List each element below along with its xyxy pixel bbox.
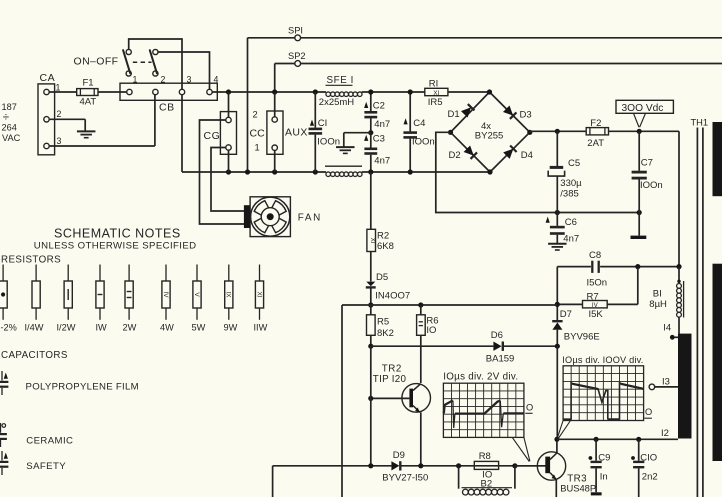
- diode D5: [366, 272, 410, 305]
- transformer primary bar: [678, 334, 692, 439]
- svg-text:8µH: 8µH: [649, 299, 667, 310]
- svg-text:In: In: [600, 471, 608, 482]
- pin 1 of CB: [127, 75, 138, 95]
- svg-text:264: 264: [2, 123, 17, 133]
- junction CB out / CG: [226, 89, 231, 94]
- svg-text:8K2: 8K2: [377, 328, 394, 339]
- wire CG bottom to AC bus: [228, 150, 230, 172]
- node bridge top corner: [487, 89, 492, 94]
- legend ceramic capacitor symbol: [0, 423, 7, 447]
- svg-text:D1: D1: [448, 109, 460, 120]
- svg-text:D7: D7: [560, 309, 572, 320]
- wire CA pin1 to F1: [49, 91, 76, 93]
- pin 3 of CB: [179, 75, 191, 95]
- svg-text:AUX: AUX: [285, 127, 308, 139]
- svg-text:XI: XI: [433, 90, 439, 97]
- wire TR3 emitter down: [555, 479, 557, 497]
- svg-text:O: O: [645, 407, 652, 417]
- oscillogram box 2: [563, 366, 644, 421]
- legend resistor 4W: [160, 265, 174, 333]
- svg-text:4n7: 4n7: [374, 156, 390, 167]
- wire bottom-left return: [273, 466, 342, 497]
- diode D1: [448, 104, 475, 120]
- diode D4: [503, 145, 533, 160]
- oscillogram 2 zero marker: [644, 407, 652, 418]
- oscillogram 2 waveform: [564, 383, 644, 420]
- legend subtitle: [34, 241, 197, 252]
- svg-text:CB: CB: [159, 102, 175, 114]
- legend SAFETY: [26, 461, 66, 472]
- svg-text:IOOn: IOOn: [640, 180, 663, 191]
- chassis terminal bar (C9): [591, 492, 602, 495]
- svg-text:I5K: I5K: [589, 309, 604, 320]
- diode D6: [486, 330, 558, 364]
- inductor SFE1 winding A: [326, 92, 362, 97]
- pin 4 of CB: [207, 75, 219, 95]
- svg-text:C4: C4: [413, 118, 425, 129]
- junction CC bottom: [272, 169, 277, 174]
- junction 300V rail / B1 top: [676, 264, 681, 269]
- pin 1 of CC: [272, 145, 277, 150]
- wire pin 12 row: [557, 428, 678, 439]
- junction C4 top: [408, 89, 413, 94]
- wire 300Vdc rail down right side: [678, 131, 680, 266]
- wire TR2 base: [371, 397, 410, 399]
- svg-text:O: O: [526, 402, 533, 412]
- svg-text:BUS48P: BUS48P: [560, 483, 596, 494]
- junction CG bottom: [226, 169, 231, 174]
- svg-text:F2: F2: [590, 118, 601, 129]
- svg-text:XI: XI: [255, 291, 262, 297]
- ground (C6): [548, 244, 567, 250]
- svg-text:2n2: 2n2: [642, 471, 658, 482]
- svg-text:I/4W: I/4W: [25, 323, 44, 333]
- svg-text:1: 1: [133, 75, 138, 85]
- mains voltage label 187-264 VAC: [2, 102, 21, 143]
- legend resistor IW: [96, 265, 108, 333]
- wire D9 row: [342, 465, 546, 467]
- svg-text:BA159: BA159: [486, 354, 515, 365]
- wire C7 node to chassis terminal: [638, 213, 640, 236]
- svg-text:D5: D5: [376, 272, 388, 283]
- resistor R7: [557, 267, 638, 320]
- transistor TR2: [373, 363, 431, 412]
- oscillogram 1 waveform: [444, 401, 524, 428]
- svg-text:SFE I: SFE I: [327, 75, 355, 86]
- diode D2: [449, 145, 478, 160]
- fuse F1: [77, 78, 98, 108]
- svg-text:D3: D3: [520, 110, 532, 121]
- pin 2 of CC: [272, 117, 277, 122]
- capacitor C5: [548, 131, 582, 212]
- wire CG top pin to fan (lower): [200, 120, 245, 224]
- inductor SFE1 label: [326, 75, 355, 86]
- legend CAPACITORS heading: [1, 350, 68, 361]
- svg-text:CA: CA: [40, 72, 56, 84]
- svg-text:IN4OO7: IN4OO7: [375, 290, 410, 301]
- wire CA pin2 to ground: [49, 119, 85, 131]
- fan motor M1: [244, 197, 291, 237]
- wire CB pin3 down to bottom AC bus: [181, 95, 183, 172]
- junction TR2 base node: [368, 396, 373, 401]
- svg-text:1: 1: [255, 143, 260, 153]
- capacitor C9: [589, 439, 611, 492]
- transistor TR3: [537, 452, 596, 494]
- svg-text:F1: F1: [83, 78, 94, 89]
- svg-text:9W: 9W: [224, 323, 238, 333]
- svg-text:IO: IO: [426, 325, 436, 336]
- svg-text:C9: C9: [598, 453, 610, 464]
- svg-text:IV: IV: [162, 291, 169, 298]
- legend POLYPROPYLENE FILM: [26, 381, 139, 392]
- junction R5 bottom / D6: [368, 344, 373, 349]
- wire CG bottom pin to fan (upper): [211, 148, 244, 212]
- legend resistor 5W: [192, 265, 206, 333]
- wire S1 top to CB pin3: [129, 39, 182, 89]
- svg-text:IOµs div. IOOV div.: IOµs div. IOOV div.: [562, 355, 643, 365]
- svg-text:I4: I4: [663, 323, 671, 334]
- connector CG: [204, 112, 237, 155]
- wire S2 top to CB pin4: [158, 52, 210, 89]
- svg-text:RESISTORS: RESISTORS: [1, 255, 61, 266]
- junction SP1 bottom: [245, 169, 250, 174]
- svg-text:4n7: 4n7: [374, 119, 390, 130]
- capacitor C7: [632, 131, 663, 212]
- svg-text:C7: C7: [641, 158, 653, 169]
- connector CC: [250, 110, 284, 155]
- ground (filter midpoint): [336, 147, 355, 153]
- oscillogram box 2 label: [562, 355, 643, 365]
- junction D5 anode node: [368, 302, 373, 307]
- svg-text:CG: CG: [204, 130, 221, 142]
- svg-text:FAN: FAN: [298, 213, 322, 224]
- svg-text:2AT: 2AT: [587, 138, 604, 149]
- svg-text:SPI: SPI: [288, 26, 303, 36]
- inductor B1: [649, 267, 683, 335]
- switch contact S2 upper: [153, 49, 158, 54]
- thermal switch TH1: [691, 118, 709, 497]
- svg-text:D4: D4: [521, 150, 533, 161]
- ground (mains earth): [77, 131, 96, 137]
- connector CA: [38, 72, 55, 155]
- wire base rail down: [370, 346, 372, 466]
- svg-text:D6: D6: [491, 330, 503, 341]
- ON-OFF label: [74, 56, 119, 68]
- junction TR2 emitter node: [418, 463, 423, 468]
- svg-text:6K8: 6K8: [377, 241, 394, 252]
- diode D7: [552, 309, 600, 346]
- svg-text:SP2: SP2: [288, 51, 306, 61]
- legend CERAMIC: [26, 436, 73, 447]
- junction D7 cathode / snubber: [555, 302, 560, 307]
- svg-text:IW: IW: [96, 323, 108, 333]
- wire bridge AC top: [487, 91, 490, 93]
- oscillogram box 1 label: [443, 372, 518, 383]
- legend resistor 9W: [224, 265, 238, 333]
- label AUX: [285, 127, 308, 139]
- wire CG top to AC bus: [228, 92, 230, 117]
- svg-text:-2%: -2%: [1, 323, 17, 333]
- junction D9 anode: [368, 463, 373, 468]
- junction R8 left: [456, 463, 461, 468]
- svg-text:I5On: I5On: [587, 277, 608, 288]
- junction SP2 / CC: [272, 89, 277, 94]
- svg-text:1: 1: [56, 83, 61, 93]
- svg-text:IOOn: IOOn: [412, 137, 435, 148]
- svg-text:IX: IX: [225, 291, 232, 298]
- svg-text:TR2: TR2: [382, 363, 402, 374]
- legend resistor I/2W: [57, 265, 76, 333]
- pin 2 of CA: [44, 109, 62, 122]
- junction R6 top: [418, 302, 423, 307]
- svg-text:IOOn: IOOn: [317, 137, 340, 148]
- svg-text:C2: C2: [373, 101, 385, 112]
- svg-text:2W: 2W: [123, 323, 137, 333]
- resistor R8: [474, 451, 498, 480]
- junction C2 top: [368, 89, 373, 94]
- resistor R6: [417, 305, 439, 383]
- node bridge bottom corner: [487, 169, 492, 174]
- chassis terminal bar (negative rail): [631, 236, 647, 239]
- capacitor C6: [546, 213, 580, 245]
- svg-text:5W: 5W: [192, 323, 206, 333]
- svg-text:I/2W: I/2W: [57, 323, 76, 333]
- svg-text:2: 2: [253, 110, 258, 120]
- svg-text:CC: CC: [250, 128, 266, 140]
- wire C8 left down to D7: [556, 267, 558, 321]
- svg-text:R5: R5: [377, 316, 389, 327]
- legend safety capacitor symbol: [0, 451, 8, 475]
- svg-text:V: V: [193, 292, 200, 297]
- svg-text:3: 3: [187, 75, 192, 85]
- svg-text:BYV96E: BYV96E: [564, 331, 600, 342]
- svg-text:2: 2: [161, 75, 166, 85]
- wire SP1 bus: [248, 38, 722, 172]
- switch blade S1: [123, 50, 130, 73]
- junction C5 top: [555, 129, 560, 134]
- junction C5 bottom on negative rail: [555, 210, 560, 215]
- label FAN: [298, 213, 322, 224]
- bridge diamond wires: [451, 92, 530, 172]
- capacitor C3: [364, 133, 390, 172]
- capacitor C2: [364, 92, 390, 133]
- wire D5 node across to D7 node: [342, 304, 557, 306]
- wire main AC bus (top): [212, 91, 487, 93]
- capacitor C1: [309, 92, 341, 172]
- inductor SFE1 winding B: [325, 166, 362, 176]
- wire bridge left corner to negative rail: [436, 132, 639, 212]
- oscillogram 1 pointer: [512, 437, 530, 461]
- svg-text:XI: XI: [369, 238, 376, 244]
- pin 14: [663, 323, 678, 340]
- wire bottom AC bus: [182, 171, 488, 173]
- svg-text:3OO Vdc: 3OO Vdc: [622, 103, 664, 114]
- junction D6 cathode / collector node: [555, 344, 560, 349]
- svg-text:C8: C8: [589, 250, 601, 261]
- svg-text:3: 3: [57, 136, 62, 146]
- legend RESISTORS heading: [1, 255, 61, 266]
- junction C3 bottom / R2 branch: [368, 169, 373, 174]
- legend resistor -2%: [0, 265, 17, 333]
- resistor R2: [367, 172, 394, 281]
- junction TR3 collector node: [554, 437, 559, 442]
- svg-text:C3: C3: [373, 133, 385, 144]
- svg-text:UNLESS OTHERWISE SPECIFIED: UNLESS OTHERWISE SPECIFIED: [34, 241, 197, 252]
- svg-text:RI: RI: [429, 78, 439, 89]
- oscillogram 1 zero marker: [525, 402, 533, 413]
- junction C8/R7 right: [635, 264, 640, 269]
- svg-text:IIW: IIW: [254, 323, 268, 333]
- legend title SCHEMATIC NOTES: [54, 227, 181, 241]
- junction C7 bottom on negative rail: [637, 210, 642, 215]
- label B2: [481, 479, 493, 490]
- svg-text:R2: R2: [377, 230, 389, 241]
- node SP1: [288, 26, 303, 41]
- wire positive rail: [530, 130, 679, 132]
- svg-text:187: 187: [2, 102, 17, 112]
- svg-text:IR5: IR5: [428, 97, 443, 108]
- svg-text:D9: D9: [393, 450, 405, 461]
- inductor B2: [459, 466, 515, 495]
- wire left loop down: [341, 305, 343, 497]
- svg-text:POLYPROPYLENE FILM: POLYPROPYLENE FILM: [26, 381, 139, 392]
- svg-text:4AT: 4AT: [80, 97, 97, 108]
- wire TR2 emitter down: [420, 412, 422, 465]
- label 2x25mH: [319, 97, 355, 108]
- junction C1 bottom: [313, 169, 318, 174]
- svg-text:ON–OFF: ON–OFF: [74, 56, 119, 68]
- svg-text:I3: I3: [662, 377, 670, 388]
- switch contact S1 lower: [126, 71, 131, 76]
- legend resistor 2W: [123, 265, 137, 333]
- wire CA pin3 to CB pin2: [49, 95, 155, 146]
- svg-text:I2: I2: [661, 428, 669, 439]
- svg-text:VAC: VAC: [2, 133, 21, 143]
- legend film capacitor symbol: [0, 371, 8, 395]
- junction C9 top: [594, 437, 599, 442]
- wire D6 node down to collector: [556, 346, 558, 439]
- wire TR3 collector: [556, 439, 558, 453]
- svg-text:C5: C5: [568, 158, 580, 169]
- pin top of CG: [226, 117, 231, 122]
- node SP2: [288, 51, 306, 66]
- svg-text:R8: R8: [479, 451, 491, 462]
- svg-text:D2: D2: [449, 150, 461, 161]
- svg-text:BY255: BY255: [475, 131, 504, 142]
- node bridge left corner: [448, 130, 453, 135]
- svg-text:R7: R7: [587, 292, 599, 303]
- svg-text:C6: C6: [565, 217, 577, 228]
- node bridge right corner: [527, 130, 532, 135]
- wire R5 bottom to D6: [371, 345, 494, 347]
- capacitor C8: [557, 250, 679, 288]
- legend resistor IIW: [254, 265, 268, 333]
- svg-text:2x25mH: 2x25mH: [319, 97, 355, 108]
- wire TR3 base: [515, 465, 545, 467]
- capacitor C4: [403, 92, 434, 172]
- diode D3: [503, 105, 532, 120]
- svg-text:SCHEMATIC NOTES: SCHEMATIC NOTES: [54, 227, 181, 241]
- junction C4 bottom: [408, 169, 413, 174]
- pin 2 of CB: [153, 75, 166, 95]
- junction 300Vdc node: [637, 129, 642, 134]
- svg-text:4W: 4W: [160, 323, 174, 333]
- switch blade S2: [150, 50, 157, 73]
- pin 1 of CA: [44, 83, 61, 95]
- wire midpoint to ground: [344, 133, 371, 147]
- svg-text:CIO: CIO: [640, 452, 657, 463]
- svg-text:IOµs div. 2V div.: IOµs div. 2V div.: [443, 372, 518, 383]
- svg-text:2: 2: [57, 109, 62, 119]
- wire bridge right corner to F2: [529, 131, 531, 132]
- callout box 300 Vdc: [616, 100, 673, 127]
- svg-text:TIP I20: TIP I20: [373, 374, 407, 385]
- svg-text:CI: CI: [318, 118, 328, 129]
- svg-text:4: 4: [214, 75, 219, 85]
- junction R8 right: [512, 463, 517, 468]
- svg-text:CERAMIC: CERAMIC: [26, 436, 73, 447]
- pin 13: [649, 377, 678, 390]
- oscillogram 2 pointer: [558, 421, 571, 439]
- legend resistor I/4W: [25, 265, 44, 333]
- switch block CB: [120, 83, 217, 113]
- pin 3 of CA: [44, 136, 62, 149]
- diode D9: [382, 450, 428, 484]
- svg-text:/385: /385: [560, 188, 579, 199]
- fuse F2: [586, 118, 608, 149]
- resistor R5: [367, 305, 394, 346]
- pin bottom of CG: [226, 145, 231, 150]
- switch contact S2 lower: [153, 71, 158, 76]
- heatsink bar lower right: [713, 264, 722, 461]
- switch contact S1 upper: [126, 49, 131, 54]
- svg-text:SAFETY: SAFETY: [26, 461, 66, 472]
- capacitor C10: [631, 439, 658, 497]
- svg-text:CAPACITORS: CAPACITORS: [1, 350, 68, 361]
- junction C2-C3 midpoint: [368, 130, 373, 135]
- wire CC bottom to AC bus: [274, 150, 276, 172]
- svg-text:TH1: TH1: [691, 118, 709, 128]
- mechanical link dashes: [133, 61, 152, 63]
- resistor R1: [425, 78, 448, 108]
- svg-text:IV: IV: [592, 302, 599, 309]
- svg-text:BYV27-I50: BYV27-I50: [382, 472, 428, 483]
- label 4x BY255: [475, 121, 504, 142]
- oscillogram box 1: [443, 383, 524, 437]
- wire SP2 bus: [275, 64, 722, 93]
- svg-text:BI: BI: [653, 289, 662, 300]
- wire CC top to AC bus: [274, 92, 276, 117]
- heatsink bar upper right: [713, 122, 722, 196]
- wire F1 to CB pin1: [98, 91, 127, 93]
- junction C10 top: [636, 437, 641, 442]
- junction C1 top: [313, 89, 318, 94]
